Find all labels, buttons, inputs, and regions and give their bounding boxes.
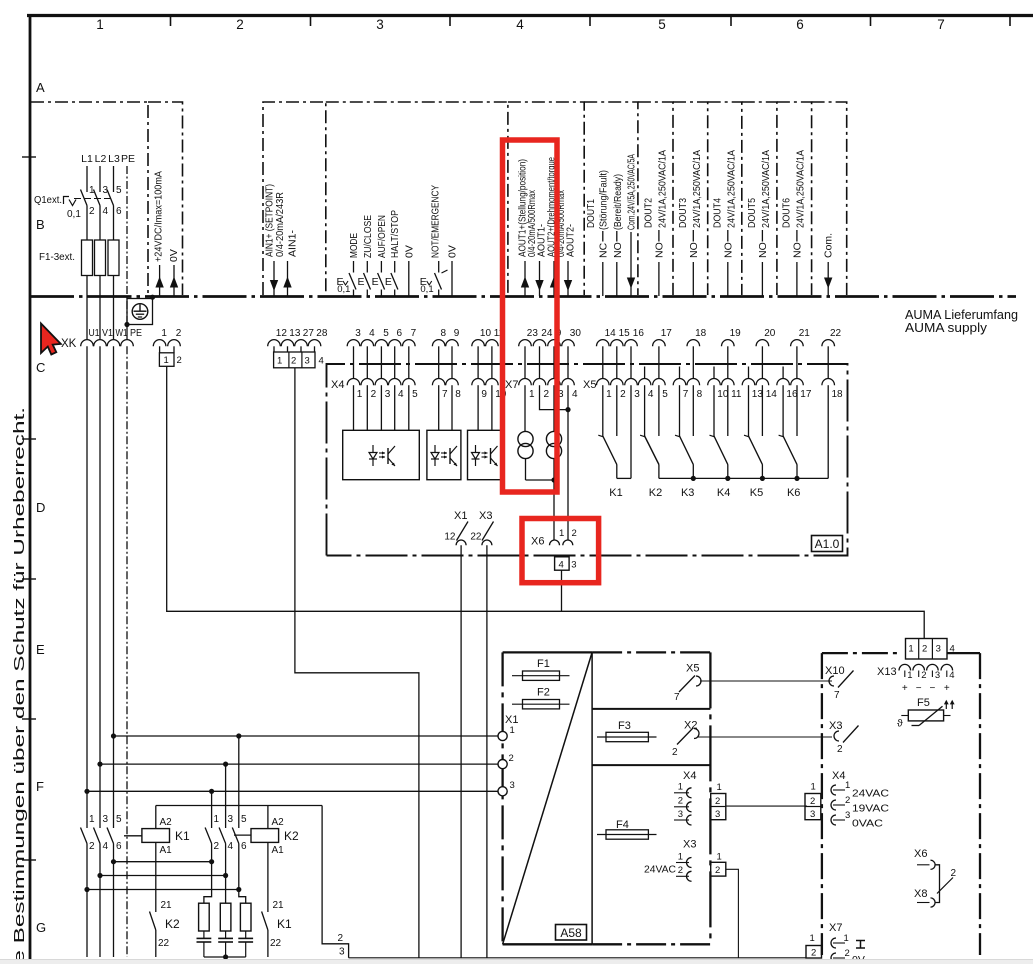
wire terminal 28 to box xyxy=(314,346,316,352)
wire X5 to X10 xyxy=(700,680,832,682)
svg-text:11: 11 xyxy=(731,389,742,400)
A58 transformer diagonal xyxy=(503,652,592,944)
svg-text:2: 2 xyxy=(89,841,95,852)
svg-text:HALT/STOP: HALT/STOP xyxy=(389,210,401,258)
svg-text:B: B xyxy=(36,217,45,232)
svg-text:2: 2 xyxy=(845,795,850,806)
terminal XK 1 xyxy=(153,340,166,347)
cross wire H3 xyxy=(87,889,241,891)
wire AIN1+ with down arrow xyxy=(273,261,275,296)
connector X5 pin 11 xyxy=(722,379,735,386)
terminal XK 6 xyxy=(388,340,401,347)
jumper bracket X6-X8 xyxy=(935,865,940,903)
terminal XK V1 xyxy=(94,340,107,347)
svg-text:0VAC: 0VAC xyxy=(852,818,883,830)
svg-text:ie Bestimmungen über den Schut: ie Bestimmungen über den Schutz für Urhe… xyxy=(12,407,28,964)
svg-text:E: E xyxy=(385,276,392,288)
svg-text:21: 21 xyxy=(273,900,285,911)
row boundary ticks on left frame xyxy=(22,156,36,158)
AUMA supply boundary bus line xyxy=(30,295,1016,298)
svg-text:10: 10 xyxy=(717,389,729,400)
wire U1 below tap xyxy=(86,791,88,828)
svg-text:Com.: Com. xyxy=(823,233,835,258)
K2 pole 2 blade xyxy=(219,828,226,844)
svg-text:23: 23 xyxy=(527,328,539,339)
terminal XK 18 xyxy=(687,340,700,347)
svg-text:NO: NO xyxy=(612,242,624,258)
svg-text:12: 12 xyxy=(444,532,456,543)
wire terminal to connector x=408.8 xyxy=(408,346,410,379)
junction dot K5 common xyxy=(760,476,765,481)
terminal XK 10 xyxy=(472,340,485,347)
wire PE lower dash-dot xyxy=(126,346,128,957)
wire PE dot to terminal xyxy=(126,325,128,340)
svg-text:ϑ: ϑ xyxy=(897,718,903,730)
terminal XK 27 xyxy=(295,340,308,347)
connector X5 pin 4 xyxy=(638,379,651,386)
terminal XK 7 xyxy=(403,340,416,347)
svg-text:1: 1 xyxy=(510,725,515,736)
svg-text:9: 9 xyxy=(454,328,460,339)
wire L1 xyxy=(86,166,88,192)
optocoupler input box 2 xyxy=(427,430,461,479)
svg-text:4: 4 xyxy=(572,389,578,400)
cross wire H2 xyxy=(100,875,227,877)
wire terminal to connector x=616.8 xyxy=(616,346,618,379)
svg-text:1: 1 xyxy=(810,933,815,944)
wire X4 to opto1 x=394.7 xyxy=(394,385,396,430)
wire X4 to opto1 x=381.4 xyxy=(380,385,382,430)
wire X7-2 jog xyxy=(540,385,569,409)
svg-text:13: 13 xyxy=(289,328,301,339)
connector X5 pin 7 xyxy=(673,379,686,386)
svg-text:1: 1 xyxy=(844,933,849,944)
wire 0V with up arrow xyxy=(173,265,175,296)
svg-text:2: 2 xyxy=(620,389,626,400)
terminal XK 11 xyxy=(486,340,499,347)
wire terminal to connector x=353.5 xyxy=(353,346,355,379)
wire terminal to connector x=438.7 xyxy=(438,346,440,379)
wire L3 lower xyxy=(113,206,115,241)
svg-text:Com.24V/5A,250VAC/5A: Com.24V/5A,250VAC/5A xyxy=(626,154,638,230)
wire AIN box down, across, down xyxy=(295,368,419,958)
relay common bus xyxy=(659,477,828,479)
wire terminal 2 to box xyxy=(173,346,175,352)
svg-text:3: 3 xyxy=(355,328,361,339)
svg-text:G: G xyxy=(36,920,46,935)
svg-text:1: 1 xyxy=(96,17,104,32)
connector X1 pin 2 xyxy=(498,760,507,769)
svg-text:8: 8 xyxy=(441,328,447,339)
svg-text:(Störung/Fault): (Störung/Fault) xyxy=(597,170,609,230)
svg-text:4: 4 xyxy=(103,206,109,217)
wire L1 lower xyxy=(86,206,88,241)
terminal XK 22 xyxy=(822,340,835,347)
wire K2 NC down xyxy=(155,930,157,957)
svg-text:0V: 0V xyxy=(447,245,459,258)
wire ZU to bus xyxy=(366,290,368,297)
junction dot H1 right xyxy=(209,859,214,864)
svg-text:2: 2 xyxy=(922,644,927,655)
connector X5 pin 14 xyxy=(756,379,769,386)
terminal XK 2 xyxy=(168,340,181,347)
svg-text:A2: A2 xyxy=(160,817,173,828)
connector X4 right pin 3 xyxy=(831,815,836,825)
svg-text:4: 4 xyxy=(950,644,955,655)
wire X3/2 to bottom bus xyxy=(726,869,739,958)
stub above X5 pin x=748.5 xyxy=(748,367,750,380)
svg-text:1: 1 xyxy=(678,782,683,793)
svg-text:X6: X6 xyxy=(531,536,544,548)
junction dot K4 common xyxy=(725,476,730,481)
svg-text:4: 4 xyxy=(648,389,654,400)
svg-text:F1-3ext.: F1-3ext. xyxy=(39,252,75,263)
K1 pole L3 blade xyxy=(107,828,114,844)
svg-text:15: 15 xyxy=(619,328,631,339)
svg-text:24V/1A,250VAC/1A: 24V/1A,250VAC/1A xyxy=(726,150,738,228)
svg-text:2: 2 xyxy=(845,948,850,959)
junction dot X7-2/4 xyxy=(565,407,570,412)
connector X6 box 4|3 xyxy=(555,557,570,570)
junction dot K2 pole2 top xyxy=(223,762,228,767)
junction dot U1 tap xyxy=(84,789,89,794)
wire K2 pole2 from tap xyxy=(225,764,227,828)
svg-text:C: C xyxy=(36,360,45,375)
junction dot snubber xyxy=(223,954,228,959)
svg-text:10: 10 xyxy=(480,328,492,339)
terminal XK 19 xyxy=(722,340,735,347)
unit A58 outline xyxy=(501,652,503,944)
svg-text:4: 4 xyxy=(103,841,109,852)
wire AIN1- with up arrow xyxy=(287,261,289,296)
svg-text:19VAC: 19VAC xyxy=(852,803,889,815)
svg-text:K1: K1 xyxy=(175,829,190,843)
terminal XK 30 xyxy=(562,340,575,347)
dash-dot box DOUT3 group xyxy=(673,102,708,295)
svg-text:8: 8 xyxy=(697,389,703,400)
K2 pole 1 blade xyxy=(232,828,239,844)
wire +24VDC with up arrow xyxy=(159,265,161,296)
svg-text:3: 3 xyxy=(715,809,720,820)
right enclosure dash-dot outline xyxy=(821,653,823,955)
wire CT1 bottom xyxy=(525,459,527,480)
svg-text:F2: F2 xyxy=(537,687,550,699)
wire snubber down xyxy=(225,957,227,960)
wire L3 xyxy=(113,166,115,192)
svg-text:DOUT3: DOUT3 xyxy=(677,198,689,228)
connector X13 top box xyxy=(906,639,948,660)
wire K2 A2 up xyxy=(267,806,269,829)
terminal XK 13 xyxy=(281,340,294,347)
svg-text:K6: K6 xyxy=(787,487,800,499)
wire XK1/2 box down and across to X13 xyxy=(167,366,925,638)
svg-text:6: 6 xyxy=(241,841,247,852)
svg-text:A: A xyxy=(36,80,45,95)
unit label A1.0 box xyxy=(812,536,843,552)
wire DOUT2 xyxy=(658,230,660,242)
svg-text:DOUT4: DOUT4 xyxy=(712,198,724,228)
svg-text:AUMA supply: AUMA supply xyxy=(905,321,988,335)
drawing frame left border xyxy=(29,14,32,964)
svg-text:NO: NO xyxy=(757,242,769,258)
snubber common bar xyxy=(204,956,246,958)
terminal XK 28 xyxy=(308,340,321,347)
optocoupler input box 1 xyxy=(343,430,420,479)
svg-text:3: 3 xyxy=(634,389,640,400)
svg-text:1: 1 xyxy=(717,852,722,863)
svg-text:17: 17 xyxy=(661,328,673,339)
wire X7-3 to CT2 xyxy=(553,385,555,431)
svg-text:1: 1 xyxy=(606,389,612,400)
terminal XK 24 xyxy=(533,340,546,347)
svg-text:DOUT2: DOUT2 xyxy=(643,198,655,228)
svg-text:0,1: 0,1 xyxy=(337,284,350,295)
wire K2 pole1 from tap xyxy=(238,736,240,828)
wire 0V2 to bus xyxy=(451,273,453,297)
wire V1 below tap xyxy=(99,764,101,828)
svg-text:X5: X5 xyxy=(583,379,596,391)
svg-text:24V/1A,250VAC/1A: 24V/1A,250VAC/1A xyxy=(795,150,807,228)
connector X5 pin 16 xyxy=(777,379,790,386)
fuse F3 xyxy=(108,240,119,276)
svg-text:E: E xyxy=(372,276,379,288)
coil K1 xyxy=(142,829,170,843)
dash-dot box DOUT2 group xyxy=(638,102,673,295)
junction dot ground box to bus xyxy=(150,295,155,300)
svg-text:F: F xyxy=(36,779,44,794)
junction dot V1 tap xyxy=(97,762,102,767)
svg-text:XK: XK xyxy=(61,338,77,350)
terminal XK 17 xyxy=(653,340,666,347)
protective earth symbol xyxy=(132,304,148,320)
svg-text:AUMA Lieferumfang: AUMA Lieferumfang xyxy=(905,308,1018,322)
junction dot K3 common xyxy=(691,476,696,481)
connector X1 pin 3 xyxy=(498,787,507,796)
svg-text:20: 20 xyxy=(764,328,776,339)
wire Com. down arrow xyxy=(827,262,829,296)
svg-text:1: 1 xyxy=(717,782,722,793)
wire K2 pole3 from tap xyxy=(211,791,213,828)
svg-text:X7: X7 xyxy=(829,922,842,934)
svg-text:F3: F3 xyxy=(618,720,631,732)
snubber resistor R3 xyxy=(239,890,246,904)
wire terminal 1 to box xyxy=(159,346,161,352)
svg-text:1: 1 xyxy=(845,780,850,791)
wire terminal to connector x=452.0 xyxy=(451,346,453,379)
stub above X5 pin x=644.6 xyxy=(644,367,646,380)
svg-text:AIN1-: AIN1- xyxy=(286,229,298,257)
wire DOUT5 xyxy=(761,230,763,242)
svg-text:2: 2 xyxy=(921,670,926,681)
wire terminal to connector x=478.1 xyxy=(477,346,479,379)
wire AOUT1- down arrow xyxy=(539,261,541,296)
svg-text:K3: K3 xyxy=(681,487,694,499)
svg-text:2: 2 xyxy=(672,747,678,758)
wire K1 A1 down xyxy=(155,842,157,912)
svg-text:NO: NO xyxy=(791,242,803,258)
svg-text:14: 14 xyxy=(605,328,617,339)
svg-text:1: 1 xyxy=(529,389,535,400)
svg-text:12: 12 xyxy=(276,328,288,339)
wire 0V to bus xyxy=(408,273,410,297)
svg-text:21: 21 xyxy=(799,328,811,339)
svg-text:ZU/CLOSE: ZU/CLOSE xyxy=(362,215,374,258)
connector X7 pin 1 xyxy=(519,379,532,386)
wire X4-9 to opto3 xyxy=(477,385,479,430)
K1 common bar xyxy=(617,477,631,479)
wire K2 pole1 bottom xyxy=(211,844,213,862)
wire V1 to bottom xyxy=(99,876,101,958)
wire U1 to bottom xyxy=(86,890,88,958)
A58 section divider 1 xyxy=(592,708,710,710)
red mouse cursor xyxy=(41,324,61,355)
optocoupler symbol 1 xyxy=(372,445,374,453)
svg-text:4: 4 xyxy=(516,17,524,32)
svg-text:3: 3 xyxy=(103,814,109,825)
wire DOUT3 xyxy=(692,230,694,242)
svg-text:X8: X8 xyxy=(914,888,927,900)
svg-text:22: 22 xyxy=(830,328,842,339)
svg-text:30: 30 xyxy=(570,328,582,339)
svg-text:0V: 0V xyxy=(168,249,180,262)
svg-text:1: 1 xyxy=(907,670,912,681)
svg-text:X5: X5 xyxy=(686,663,699,675)
A58 section divider 2 xyxy=(592,764,710,766)
terminal box 1|2 xyxy=(159,353,174,367)
svg-text:16: 16 xyxy=(633,328,645,339)
wire K2 coil left stub xyxy=(234,834,251,836)
terminal XK 9 xyxy=(446,340,459,347)
svg-text:3: 3 xyxy=(376,17,384,32)
svg-text:K2: K2 xyxy=(649,487,662,499)
svg-text:U1: U1 xyxy=(89,328,100,339)
wire terminal to connector x=381.4 xyxy=(380,346,382,379)
terminal XK 12 xyxy=(268,340,281,347)
svg-text:0,1: 0,1 xyxy=(420,284,433,295)
wire terminal to connector x=631.0 xyxy=(630,346,632,379)
A58 right edge xyxy=(709,652,711,944)
junction dot H3 right xyxy=(236,887,241,892)
svg-text:6: 6 xyxy=(116,206,122,217)
dash-dot box DOUT1 group xyxy=(584,102,638,295)
connector X7 bottom pin 1 xyxy=(831,938,836,948)
svg-text:7: 7 xyxy=(674,692,680,703)
svg-text:22: 22 xyxy=(158,938,170,949)
wire terminal to connector x=525.0 xyxy=(524,346,526,379)
svg-text:5: 5 xyxy=(241,814,247,825)
connector X5 pin 8 xyxy=(687,379,700,386)
connector X4 pin 8 xyxy=(446,379,459,386)
svg-text:4: 4 xyxy=(319,356,324,367)
svg-text:NC: NC xyxy=(597,242,609,258)
wire X7-4 to X6-2 xyxy=(567,385,569,540)
wire terminal to connector x=554.0 xyxy=(553,346,555,379)
svg-text:V1: V1 xyxy=(102,328,113,339)
connector X4 pin 4 xyxy=(388,379,401,386)
wire stub below label x=394.7 xyxy=(394,261,396,273)
svg-text:3: 3 xyxy=(510,780,515,791)
svg-text:2: 2 xyxy=(715,796,720,807)
junction dot ground box to PE xyxy=(124,322,129,327)
snubber capacitor C1 xyxy=(203,931,205,938)
wire K1 coil left stub xyxy=(124,835,142,837)
junction dot H2 left xyxy=(97,873,102,878)
svg-text:MODE: MODE xyxy=(348,233,360,258)
dash-dot boundary group 1 (mains supply) xyxy=(31,102,148,295)
snubber resistor R2 xyxy=(225,876,227,904)
unit label A58 box xyxy=(556,925,587,941)
svg-text:9: 9 xyxy=(481,389,487,400)
svg-text:2: 2 xyxy=(89,206,95,217)
svg-text:3: 3 xyxy=(228,814,234,825)
K2 pole 3 blade xyxy=(205,828,212,844)
wire K2 A1 down xyxy=(267,842,269,912)
connector X4 pin 1 xyxy=(347,379,360,386)
connector X5 pin 3 xyxy=(625,379,638,386)
svg-text:K1: K1 xyxy=(609,487,622,499)
svg-text:2: 2 xyxy=(371,389,377,400)
wire stub below label x=438.7 xyxy=(438,261,440,273)
svg-text:27: 27 xyxy=(303,328,315,339)
junction dot H3 left xyxy=(84,887,89,892)
svg-text:AOUT2-: AOUT2- xyxy=(565,224,577,257)
cross wire H1 xyxy=(114,861,212,863)
wire terminal to connector x=693.3 xyxy=(692,346,694,379)
connector X7 pin 4 xyxy=(562,379,575,386)
dash-dot box AIN group xyxy=(263,102,326,295)
junction dot W1 tap xyxy=(111,733,116,738)
motor phase tap V1 xyxy=(99,346,101,764)
svg-text:0/4-20mA/243R: 0/4-20mA/243R xyxy=(274,192,286,257)
wire AOUT2+ up arrow xyxy=(553,261,555,296)
relay contact K2 xyxy=(644,385,646,436)
wire terminal to connector x=727.8 xyxy=(727,346,729,379)
svg-text:L1: L1 xyxy=(81,153,93,165)
svg-text:7: 7 xyxy=(683,389,689,400)
svg-text:+: + xyxy=(944,683,950,694)
junction dot H1 left xyxy=(111,859,116,864)
column ruler ticks xyxy=(170,16,172,26)
svg-text:A58: A58 xyxy=(560,926,582,940)
svg-text:2: 2 xyxy=(811,948,816,959)
svg-text:K2: K2 xyxy=(165,917,180,931)
svg-text:4: 4 xyxy=(228,841,234,852)
connector X5 pin 2 xyxy=(611,379,624,386)
svg-text:17: 17 xyxy=(800,389,812,400)
terminal XK 21 xyxy=(791,340,804,347)
wire X4-7 to opto2 xyxy=(438,385,440,430)
wire common to X5-18 xyxy=(827,385,829,478)
wire DOUT6 xyxy=(796,230,798,242)
svg-text:3: 3 xyxy=(845,810,850,821)
terminal XK 8 xyxy=(432,340,445,347)
svg-text:1: 1 xyxy=(277,356,282,367)
svg-text:X4: X4 xyxy=(331,379,344,391)
relay contact K1 xyxy=(602,385,604,436)
terminal XK 9b xyxy=(548,340,561,347)
junction dot K2 pole1 top xyxy=(236,733,241,738)
terminal XK 3 xyxy=(347,340,360,347)
svg-text:7: 7 xyxy=(834,690,840,701)
terminal XK 23 xyxy=(519,340,532,347)
wire terminal 12 to box xyxy=(273,346,275,352)
junction dot CT join xyxy=(551,477,556,482)
svg-text:DOUT6: DOUT6 xyxy=(781,198,793,228)
Q1 pole L3 blade xyxy=(107,190,114,206)
svg-text:K4: K4 xyxy=(717,487,730,499)
svg-text:X4: X4 xyxy=(683,770,696,782)
svg-text:2: 2 xyxy=(509,753,514,764)
